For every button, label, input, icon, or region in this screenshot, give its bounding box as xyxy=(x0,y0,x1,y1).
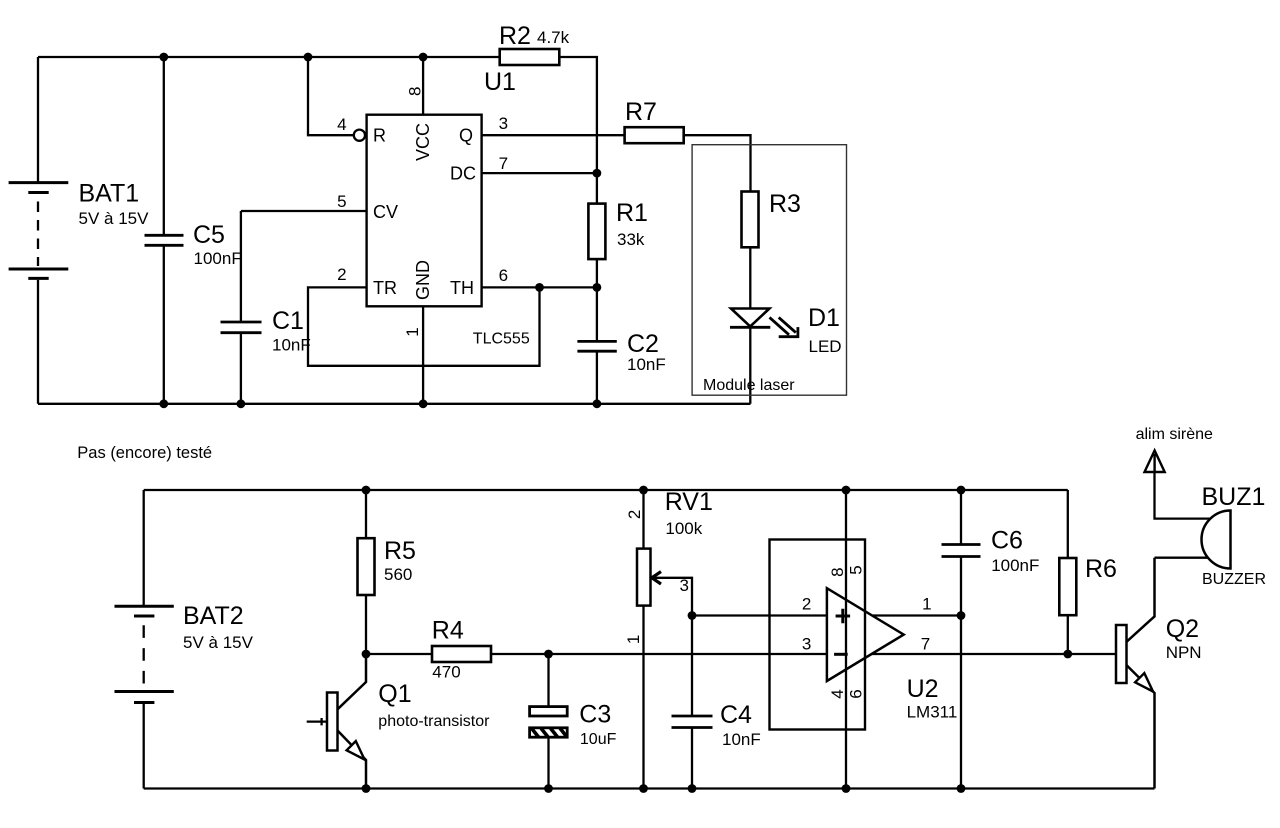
capacitor C4 xyxy=(672,616,713,789)
svg-text:RV1: RV1 xyxy=(665,488,713,516)
node C5 top xyxy=(159,53,168,62)
wire R5 top xyxy=(365,490,367,538)
resistor R6 xyxy=(1059,490,1076,654)
labels bottom circuit xyxy=(183,426,1266,749)
wire pin8 VCC xyxy=(422,57,424,115)
node opamp gnd xyxy=(842,784,851,793)
wire BAT2 bottom lead xyxy=(143,704,145,789)
svg-text:5V à 15V: 5V à 15V xyxy=(183,633,254,652)
svg-text:6: 6 xyxy=(499,266,508,285)
node opamp rail xyxy=(842,486,851,495)
node wiper C4 xyxy=(688,611,697,620)
wire buzzer bottom xyxy=(1155,557,1212,559)
node pin1 C6 xyxy=(957,611,966,620)
node TR loop TH xyxy=(535,283,544,292)
potentiometer RV1 xyxy=(637,490,692,789)
buzzer BUZ1 xyxy=(1202,511,1231,569)
node RV1 rail xyxy=(639,486,648,495)
svg-text:C4: C4 xyxy=(720,701,752,729)
wire R2 right to DC xyxy=(559,57,597,204)
wire bottom rail top circuit xyxy=(38,403,751,405)
op-amp U2 box xyxy=(770,540,866,730)
wire op-amp supply vertical xyxy=(845,490,847,789)
resistor R4 xyxy=(432,646,491,662)
alim sirene arrow xyxy=(1145,451,1165,473)
wire buzzer top xyxy=(1155,472,1212,519)
svg-text:R: R xyxy=(373,126,386,146)
resistor R2 xyxy=(500,49,560,65)
svg-text:R4: R4 xyxy=(432,617,464,645)
wire top rail bottom circuit xyxy=(144,489,1068,491)
svg-text:4: 4 xyxy=(828,689,847,698)
wire pin5 CV xyxy=(241,210,367,212)
wire R4 right to minus input xyxy=(491,653,827,655)
wire pin7 DC xyxy=(482,172,597,174)
node Q1 gnd xyxy=(362,784,371,793)
wire plus input xyxy=(692,614,827,616)
svg-text:10nF: 10nF xyxy=(722,730,761,749)
svg-text:5: 5 xyxy=(337,192,346,211)
svg-text:U2: U2 xyxy=(907,675,939,703)
transistor Q1 xyxy=(307,654,366,789)
wire pin7 output xyxy=(871,653,1116,655)
node pin4 branch xyxy=(304,53,313,62)
svg-text:D1: D1 xyxy=(808,304,840,332)
node C5 gnd xyxy=(159,399,168,408)
svg-text:LED: LED xyxy=(809,337,842,356)
svg-text:100nF: 100nF xyxy=(194,249,242,268)
wire R5 bottom xyxy=(365,595,367,654)
node C2 gnd xyxy=(593,399,602,408)
node VCC rail xyxy=(419,53,428,62)
svg-text:5V à 15V: 5V à 15V xyxy=(79,209,150,228)
svg-text:10uF: 10uF xyxy=(580,731,617,748)
capacitor C5 xyxy=(145,57,184,404)
svg-text:4.7k: 4.7k xyxy=(537,28,570,47)
svg-text:R2: R2 xyxy=(499,22,531,50)
svg-text:4: 4 xyxy=(337,115,346,134)
svg-text:R5: R5 xyxy=(384,537,416,565)
op-amp minus symbol xyxy=(834,653,848,656)
svg-text:100nF: 100nF xyxy=(991,556,1039,575)
node DC R1 xyxy=(593,169,602,178)
capacitor C6 xyxy=(942,490,981,789)
pin4 inversion bubble xyxy=(354,130,365,141)
svg-text:Q1: Q1 xyxy=(378,680,411,708)
wire R3 to LED xyxy=(749,247,751,308)
wire R1 bottom xyxy=(596,259,598,341)
wire pin1 GND xyxy=(422,306,424,404)
capacitor C3 xyxy=(530,654,568,789)
svg-text:470: 470 xyxy=(432,663,460,682)
svg-text:3: 3 xyxy=(499,114,508,133)
capacitor C1 xyxy=(221,211,262,404)
svg-text:7: 7 xyxy=(499,154,508,173)
wire R4 left xyxy=(366,653,432,655)
svg-text:TH: TH xyxy=(450,278,474,298)
svg-text:2: 2 xyxy=(802,595,811,614)
wire pin2 TR loop xyxy=(308,287,540,365)
svg-text:1: 1 xyxy=(403,327,422,336)
svg-text:BAT2: BAT2 xyxy=(183,602,244,630)
node C3 gnd xyxy=(544,784,553,793)
node RV1 gnd xyxy=(639,784,648,793)
svg-text:TR: TR xyxy=(373,278,397,298)
svg-text:LM311: LM311 xyxy=(907,703,958,722)
svg-text:BUZ1: BUZ1 xyxy=(1202,483,1266,511)
labels top circuit xyxy=(79,22,842,394)
svg-text:DC: DC xyxy=(450,164,476,184)
junction dots bottom circuit xyxy=(362,486,1073,793)
transistor Q2 xyxy=(1116,558,1155,789)
svg-text:100k: 100k xyxy=(665,519,702,538)
svg-text:3: 3 xyxy=(679,576,688,595)
diode D1 LED xyxy=(730,309,799,339)
svg-text:R1: R1 xyxy=(616,199,648,227)
svg-text:R7: R7 xyxy=(625,98,657,126)
wire top rail xyxy=(38,56,500,58)
svg-text:3: 3 xyxy=(802,635,811,654)
wire pin1 output xyxy=(873,614,962,616)
svg-text:photo-transistor: photo-transistor xyxy=(378,713,490,730)
svg-text:1: 1 xyxy=(624,635,643,644)
svg-text:R6: R6 xyxy=(1085,555,1117,583)
svg-text:1: 1 xyxy=(922,595,931,614)
svg-text:R3: R3 xyxy=(769,190,801,218)
node GND pin1 xyxy=(419,399,428,408)
node C3 top xyxy=(544,650,553,659)
node C1 gnd xyxy=(237,399,246,408)
svg-text:5: 5 xyxy=(847,565,866,574)
op-amp U2 triangle xyxy=(827,588,904,681)
module laser box xyxy=(692,145,846,396)
wire bottom rail bottom circuit xyxy=(144,787,1155,789)
wire LED to rail xyxy=(749,327,751,404)
svg-text:C2: C2 xyxy=(627,330,659,358)
svg-text:TLC555: TLC555 xyxy=(473,331,530,348)
svg-text:7: 7 xyxy=(921,635,930,654)
wire BAT1 top lead xyxy=(37,57,39,183)
svg-text:BUZZER: BUZZER xyxy=(1202,571,1266,588)
svg-text:560: 560 xyxy=(384,565,412,584)
resistor R5 xyxy=(358,538,375,595)
wire pin6 TH xyxy=(482,286,597,288)
svg-text:Module laser: Module laser xyxy=(703,377,795,394)
battery BAT2 xyxy=(115,606,174,702)
svg-text:CV: CV xyxy=(373,202,398,222)
svg-text:U1: U1 xyxy=(484,68,516,96)
wire BAT2 top lead xyxy=(143,490,145,606)
svg-text:Q2: Q2 xyxy=(1166,615,1199,643)
node R5 R4 Q1 xyxy=(362,650,371,659)
node R5 rail xyxy=(362,486,371,495)
node R6 pin7 xyxy=(1063,650,1072,659)
svg-text:BAT1: BAT1 xyxy=(79,180,140,208)
wire R7 right into module xyxy=(684,135,751,191)
op-amp U1 555 box xyxy=(367,115,482,307)
svg-text:C5: C5 xyxy=(193,221,225,249)
junction dots top circuit xyxy=(159,53,601,409)
node C4 gnd xyxy=(688,784,697,793)
svg-text:6: 6 xyxy=(847,689,866,698)
node C6 gnd xyxy=(957,784,966,793)
svg-text:GND: GND xyxy=(413,260,433,300)
svg-text:8: 8 xyxy=(828,567,847,576)
wire pin3 Q xyxy=(482,134,625,136)
wire pin4 reset xyxy=(308,57,354,135)
capacitor C2 xyxy=(577,341,616,403)
svg-text:C1: C1 xyxy=(272,307,304,335)
svg-text:Q: Q xyxy=(459,126,473,146)
node TH R1 C2 xyxy=(593,283,602,292)
svg-text:C6: C6 xyxy=(991,527,1023,555)
svg-text:10nF: 10nF xyxy=(272,336,311,355)
svg-text:C3: C3 xyxy=(579,701,611,729)
node C6 rail xyxy=(957,486,966,495)
svg-text:33k: 33k xyxy=(617,230,645,249)
svg-text:VCC: VCC xyxy=(413,123,433,161)
svg-text:8: 8 xyxy=(406,87,425,96)
svg-text:10nF: 10nF xyxy=(627,355,666,374)
resistor R1 xyxy=(588,204,605,260)
svg-text:Pas (encore) testé: Pas (encore) testé xyxy=(77,444,212,462)
svg-text:alim sirène: alim sirène xyxy=(1136,426,1213,443)
svg-text:2: 2 xyxy=(337,265,346,284)
battery BAT1 xyxy=(9,183,69,279)
op-amp plus symbol xyxy=(836,609,851,623)
wire BAT1 bottom lead xyxy=(37,280,39,404)
resistor R3 xyxy=(742,192,759,248)
svg-text:2: 2 xyxy=(625,510,644,519)
resistor R7 xyxy=(625,127,684,143)
svg-text:NPN: NPN xyxy=(1166,643,1202,662)
